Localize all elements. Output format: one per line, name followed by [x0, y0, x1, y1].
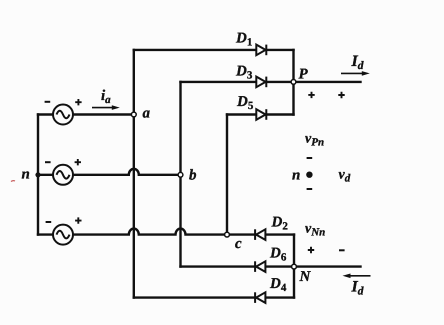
wire phase b row with hop	[38, 169, 181, 175]
wire N vertical	[293, 235, 295, 298]
label minus source b	[45, 161, 51, 163]
red scan artifact	[8, 177, 20, 185]
ac source top phase a	[53, 105, 73, 125]
svg-text:a: a	[143, 106, 151, 122]
label minus source c	[46, 221, 52, 223]
wire left rail n vertical	[37, 115, 39, 235]
label plus top right of P row	[338, 92, 344, 98]
wire P output row	[294, 81, 361, 83]
svg-text:n: n	[22, 167, 30, 183]
wire node a vertical	[133, 50, 135, 298]
diode D4	[255, 292, 265, 303]
wire node b vertical	[179, 82, 181, 267]
wire P vertical	[292, 50, 294, 115]
node n junction dot	[35, 172, 40, 177]
label plus source c	[75, 217, 81, 223]
node n reference dot center	[306, 172, 312, 178]
node P	[291, 80, 296, 85]
wire D2 row	[227, 233, 294, 235]
label plus top left of P row	[308, 92, 314, 98]
label plus source a	[75, 99, 81, 105]
svg-text:b: b	[189, 168, 197, 184]
arrow I_d top	[341, 71, 370, 76]
label minus under n dot	[307, 188, 313, 190]
diode D2	[255, 229, 265, 240]
svg-text:P: P	[299, 67, 309, 83]
diode D3	[256, 77, 266, 88]
label minus under v_Pn	[307, 157, 313, 159]
svg-text:c: c	[235, 236, 242, 252]
diode D1	[256, 45, 266, 56]
node c	[225, 232, 230, 237]
svg-text:n: n	[292, 168, 300, 184]
ac source bottom phase c	[53, 225, 73, 245]
diode D5	[256, 109, 266, 120]
wire N output row	[294, 265, 361, 267]
label plus source b	[75, 159, 81, 165]
wire D1 row	[134, 49, 294, 51]
ac source middle phase b	[53, 165, 73, 185]
wire D5 row	[227, 113, 294, 115]
svg-text:N: N	[299, 269, 312, 285]
arrow I_d bottom	[343, 274, 371, 279]
label minus source a	[45, 101, 51, 103]
wire D4 row	[134, 296, 294, 298]
node N	[292, 264, 297, 269]
arrow i_a	[92, 105, 120, 110]
wire phase c row with two hops	[38, 229, 227, 235]
label plus above N row	[308, 247, 314, 253]
wire D3 row	[181, 81, 294, 83]
wire phase a row	[38, 113, 134, 115]
label minus above N row right	[339, 249, 345, 251]
diode D6	[255, 261, 265, 272]
node b	[178, 172, 183, 177]
wire node c vertical	[226, 115, 228, 235]
wire D6 row	[181, 265, 295, 267]
node a	[131, 112, 136, 117]
